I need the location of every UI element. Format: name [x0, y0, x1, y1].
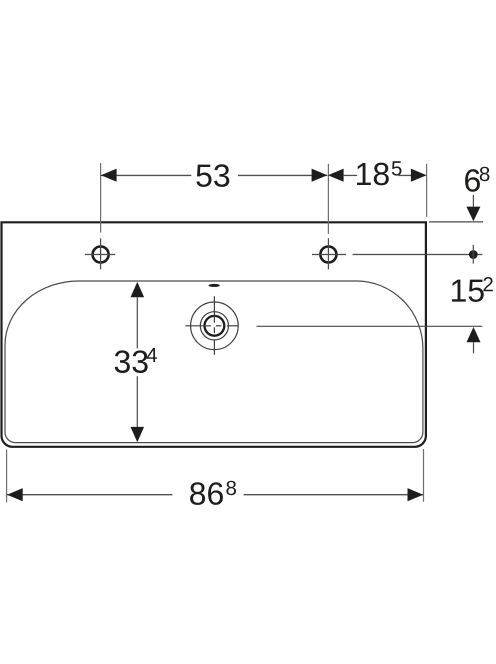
dimension line 18.5 left segment	[344, 174, 358, 176]
drain outer circle	[191, 302, 239, 350]
tap hole right crosshair horizontal	[312, 254, 346, 256]
arrow 6.8 down	[466, 207, 480, 222]
label 6	[465, 169, 480, 192]
dimension line 33.4 upper segment	[136, 297, 138, 348]
arrow 53 left	[101, 169, 117, 182]
outer basin outline	[2, 222, 426, 446]
arrow 33.4 up	[131, 282, 145, 297]
arrow 18.5 right	[411, 169, 427, 182]
dimension line 53 left segment	[101, 174, 192, 176]
label 33	[115, 350, 148, 373]
label 15 superscript 2	[483, 277, 492, 291]
drain inner circle	[205, 316, 225, 336]
label 18	[357, 163, 389, 186]
dimension 6.8 tail line	[472, 195, 474, 207]
tap hole right crosshair vertical	[327, 238, 329, 269]
extension line bottom left	[6, 450, 8, 503]
label 15	[452, 280, 484, 302]
label 18 superscript 5	[392, 161, 402, 175]
label 33 superscript 4	[147, 348, 157, 362]
extension line basin top edge right	[429, 221, 483, 223]
arrow 33.4 down	[131, 427, 145, 442]
tap hole right circle	[320, 247, 336, 263]
drain axis extension line	[257, 325, 483, 327]
extension line right tap hole	[327, 164, 329, 234]
label 6 superscript 8	[480, 167, 490, 182]
dimension line 18.5 right segment	[399, 174, 414, 176]
drain crosshair horizontal right segment	[227, 325, 238, 327]
dimension dot tap axis	[469, 250, 478, 259]
drain crosshair vertical center dash	[213, 327, 215, 333]
arrow 18.5 left	[328, 169, 344, 182]
inner bowl outline	[5, 281, 423, 443]
tap hole left crosshair horizontal	[85, 254, 115, 256]
dimension line 86.8 right segment	[244, 494, 424, 496]
label 53	[196, 164, 229, 187]
arrow 15.2 up	[467, 327, 481, 342]
drain crosshair horizontal center dash	[216, 325, 222, 327]
arrow 86.8 right	[408, 488, 424, 501]
extension line bottom right	[423, 449, 425, 502]
tap hole left crosshair vertical	[100, 238, 102, 269]
arrow 86.8 left	[7, 488, 23, 501]
overflow slot	[209, 284, 220, 287]
tap hole axis extension line	[353, 254, 483, 256]
dimension dot vertical tick	[472, 245, 474, 264]
dimension line 53 right segment	[238, 174, 327, 176]
extension line left tap hole	[100, 163, 102, 233]
drain crosshair horizontal left segment	[185, 325, 211, 327]
dimension 15.2 tail line	[473, 342, 475, 353]
drain crosshair vertical lower segment	[213, 341, 215, 355]
extension line basin right edge top	[426, 164, 428, 217]
tap hole left circle	[93, 247, 109, 263]
label 86	[190, 482, 223, 505]
arrow 53 right	[312, 169, 328, 182]
label 86 superscript 8	[226, 481, 236, 496]
dimension line 33.4 lower segment	[136, 376, 138, 427]
drain crosshair vertical upper segment	[213, 296, 215, 322]
dimension line 86.8 left segment	[7, 494, 172, 496]
drain middle circle	[200, 312, 228, 340]
